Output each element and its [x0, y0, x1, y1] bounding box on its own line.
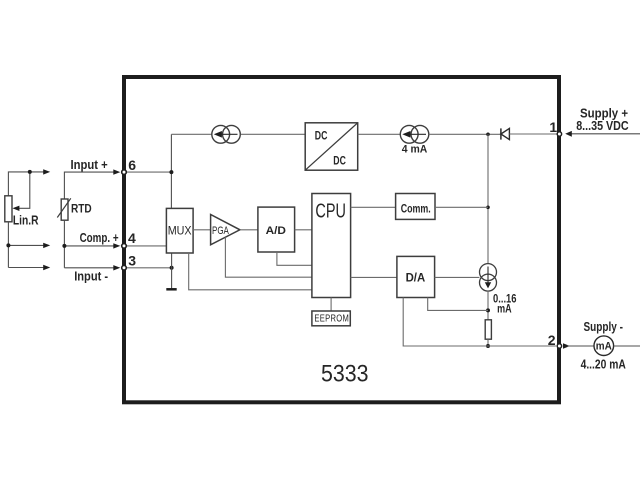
terminal 6	[122, 170, 127, 175]
node Lin.R top	[28, 170, 32, 174]
wire: input+ external (RTD top to terminal 6)	[64, 172, 114, 199]
wire: MUX bottom to CPU	[189, 253, 312, 290]
terminal 2	[557, 344, 561, 348]
current source 4mA	[400, 125, 428, 143]
svg-text:RTD: RTD	[71, 201, 92, 215]
svg-text:DC: DC	[315, 131, 328, 143]
node D/A feedback	[486, 308, 490, 312]
arrowhead into terminal 1 (left)	[565, 131, 572, 137]
ground	[166, 288, 176, 291]
resistor R1 (sense)	[485, 320, 491, 339]
svg-text:4 mA: 4 mA	[402, 144, 428, 156]
wire: source to node	[487, 291, 489, 320]
arrowhead Lin.R mid (right)	[43, 243, 50, 248]
wire: PGA bottom to CPU	[225, 237, 312, 277]
arrowhead 4mA (left)	[409, 133, 427, 135]
svg-text:Comm.: Comm.	[401, 201, 431, 215]
arrowhead into terminal 4	[113, 243, 120, 248]
op-amp PGA	[211, 215, 240, 245]
svg-text:Input +: Input +	[71, 158, 108, 172]
svg-text:6: 6	[128, 157, 136, 173]
resistor Lin.R	[5, 196, 12, 222]
wire: A/D bottom to CPU	[277, 252, 312, 265]
node comm junction	[486, 206, 490, 210]
wire: Lin.R comp arrow	[8, 244, 46, 246]
wire: 4mA to diode node	[429, 133, 501, 135]
RTD diagonal stroke	[57, 198, 71, 217]
diode D1	[500, 128, 502, 139]
svg-text:1: 1	[549, 119, 557, 135]
wire: CPU to EEPROM	[330, 298, 332, 312]
arrow down inside source	[487, 267, 489, 284]
arrowhead into terminal 6	[113, 169, 120, 174]
arrowhead transformer (left)	[220, 133, 238, 135]
svg-text:MUX: MUX	[168, 225, 192, 237]
wire: output rail to terminal 2	[488, 345, 556, 347]
svg-text:DC: DC	[333, 156, 346, 168]
svg-text:CPU: CPU	[315, 201, 346, 223]
node terminal6 junction	[169, 170, 173, 174]
wire: terminal 2 to mA meter	[567, 345, 594, 347]
svg-text:5333: 5333	[321, 360, 369, 387]
svg-text:8...35 VDC: 8...35 VDC	[576, 118, 629, 133]
svg-text:Comp. +: Comp. +	[80, 231, 119, 245]
wire: RTD bottom column	[63, 220, 65, 268]
D/A converter U6	[397, 256, 435, 297]
wire: comp+ to terminal 4	[64, 245, 115, 247]
Comm. block U5	[396, 194, 435, 220]
wire: vertical node column to MUX top	[170, 134, 172, 208]
wire: CPU to D/A	[351, 276, 397, 278]
wire: CPU to Comm	[351, 206, 396, 208]
wire: Lin.R wiper elbow	[16, 172, 30, 208]
node top rail	[486, 133, 490, 137]
node Lin.R bottom	[6, 243, 10, 247]
svg-text:4...20 mA: 4...20 mA	[581, 357, 627, 372]
svg-text:EEPROM: EEPROM	[314, 312, 349, 323]
outer module box	[124, 77, 559, 402]
wire: D/A bottom mid	[428, 298, 488, 311]
arrowhead into terminal 3	[113, 265, 120, 270]
transformer T1 (isolation)	[212, 125, 241, 143]
wire: terminal 4 to MUX	[127, 245, 166, 247]
arrowhead wiper (left)	[12, 206, 19, 211]
terminal 1	[557, 132, 561, 136]
EEPROM U7	[312, 311, 350, 326]
meter mA	[594, 336, 614, 356]
arrowhead Lin.R top (right)	[43, 169, 50, 174]
svg-text:A/D: A/D	[266, 225, 286, 237]
svg-text:mA: mA	[497, 301, 512, 315]
wire: Lin.R input- arrow	[8, 267, 46, 269]
svg-text:Supply -: Supply -	[584, 319, 624, 334]
svg-text:Lin.R: Lin.R	[13, 213, 39, 227]
svg-text:Input -: Input -	[74, 269, 108, 283]
terminal 4	[122, 244, 127, 249]
arrowhead out of terminal 2 (right)	[563, 343, 570, 348]
wire: meter to edge	[614, 345, 640, 347]
wire: MUX bottom to ground	[171, 253, 173, 289]
wire: DC/DC to 4mA source	[358, 133, 401, 135]
wire: Lin.R bottom column	[7, 222, 9, 268]
wire: D/A bottom left to output rail	[403, 298, 488, 347]
wire: diode to terminal 1	[509, 133, 556, 135]
wire: A/D to CPU	[295, 229, 312, 231]
node output rail	[486, 344, 490, 348]
resistor RTD	[61, 199, 68, 220]
node RTD bottom	[62, 244, 66, 248]
wire: terminal 3 to ground column	[127, 267, 172, 269]
node ground junction	[170, 266, 174, 270]
wire: input- to terminal 3	[64, 267, 115, 269]
DC/DC converter U1	[305, 123, 358, 170]
arrowhead Lin.R bottom (right)	[43, 265, 50, 270]
wire: supply+ external	[571, 133, 640, 135]
svg-text:4: 4	[128, 230, 136, 246]
wire: D/A to output current source	[435, 276, 480, 278]
wire: resistor to output rail	[487, 339, 489, 346]
wire: top rail left	[171, 133, 211, 135]
svg-text:D/A: D/A	[406, 272, 426, 284]
wire: vertical rail x=488	[487, 134, 489, 263]
wire: Comm to vertical rail	[435, 206, 488, 208]
svg-text:2: 2	[548, 332, 556, 348]
svg-text:3: 3	[128, 252, 136, 268]
A/D converter U3	[258, 207, 295, 252]
wire: Lin.R top to arrow	[8, 172, 46, 196]
wire: transformer to DC/DC	[241, 133, 305, 135]
svg-text:PGA: PGA	[212, 225, 229, 237]
CPU U4	[312, 194, 351, 298]
terminal 3	[122, 266, 127, 271]
current source 0...16 mA	[480, 264, 497, 292]
svg-text:mA: mA	[596, 341, 612, 353]
wire: PGA to A/D	[240, 229, 258, 231]
MUX U2	[166, 208, 193, 253]
wire: MUX to PGA	[193, 229, 211, 231]
wire: terminal 6 to internal node	[127, 171, 171, 173]
